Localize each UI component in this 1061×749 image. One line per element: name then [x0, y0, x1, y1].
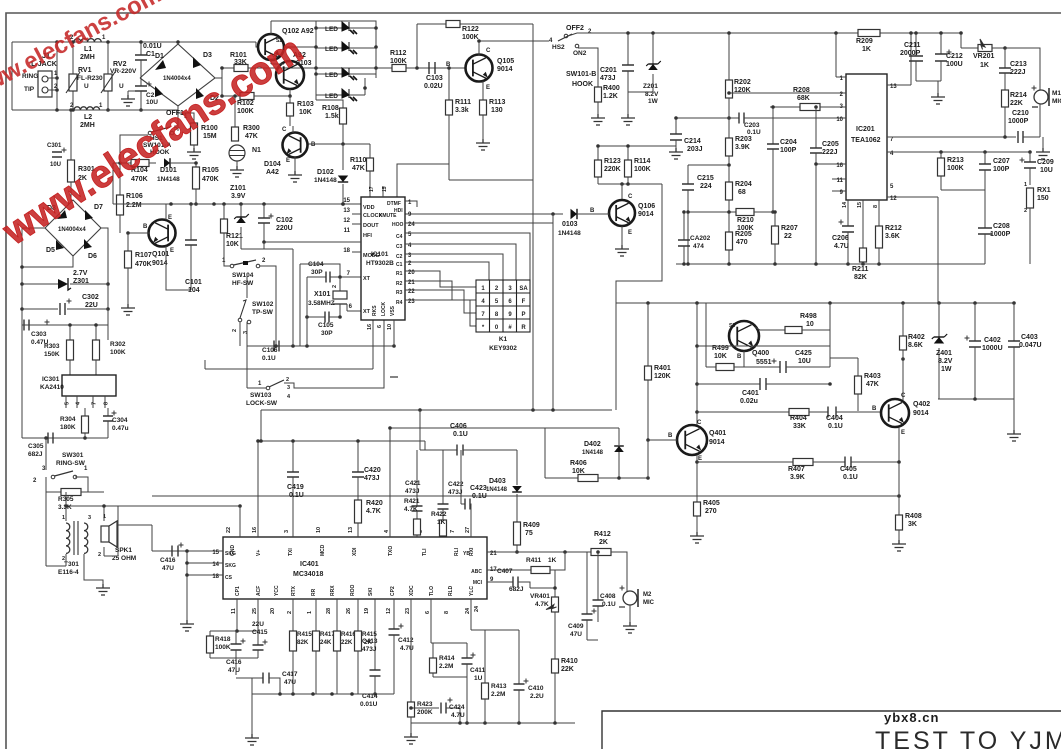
svg-text:2: 2 — [332, 285, 338, 288]
svg-text:C402: C402 — [984, 337, 1001, 344]
svg-text:TIP: TIP — [24, 86, 35, 93]
wire rail y204 — [113, 203, 361, 205]
svg-text:3.9K: 3.9K — [790, 474, 805, 481]
wire R123/R114 tops — [598, 145, 676, 147]
wire bottom rail y110 — [12, 109, 178, 111]
capacitor C305 682J — [48, 433, 53, 444]
svg-text:22: 22 — [784, 233, 792, 240]
diode D8 — [57, 210, 67, 219]
resistor R404 33K — [697, 411, 789, 413]
svg-text:474: 474 — [693, 243, 704, 250]
svg-text:R123: R123 — [604, 158, 621, 165]
svg-text:B: B — [311, 142, 316, 148]
svg-text:470: 470 — [736, 239, 748, 246]
svg-text:10: 10 — [387, 324, 393, 330]
ground under N1 — [236, 161, 238, 166]
svg-text:RLI: RLI — [454, 547, 460, 556]
wire long y496 — [152, 495, 899, 497]
svg-text:C: C — [282, 127, 287, 133]
resistor R305 3.3K — [46, 491, 61, 493]
resistor R499 10K — [705, 303, 707, 367]
svg-text:LED: LED — [325, 72, 338, 79]
capacitor C201 473J — [627, 33, 629, 65]
svg-text:11: 11 — [344, 228, 351, 234]
wire row y144 Q104 base — [308, 143, 370, 145]
svg-text:1N4004x4: 1N4004x4 — [58, 227, 86, 233]
wire vertical x293 — [292, 249, 294, 346]
svg-text:MODE: MODE — [363, 253, 380, 259]
resistor R301 2K — [70, 110, 72, 160]
resistor R108 1.5k — [340, 108, 347, 124]
wire HS1 to R104 row — [120, 135, 148, 163]
svg-text:C422: C422 — [448, 481, 464, 488]
svg-text:R414: R414 — [439, 655, 455, 662]
svg-text:R212: R212 — [885, 225, 902, 232]
svg-text:1.5k: 1.5k — [325, 113, 339, 120]
svg-text:R208: R208 — [793, 87, 810, 94]
svg-text:R107: R107 — [135, 252, 152, 259]
svg-text:ABC: ABC — [471, 569, 482, 575]
svg-text:1: 1 — [307, 611, 313, 614]
ground under R100 — [193, 145, 195, 148]
svg-text:C201: C201 — [600, 67, 617, 74]
wire main row y68 — [222, 67, 466, 69]
wire pin1 to rail — [835, 33, 837, 77]
wire Q401 base — [648, 439, 677, 441]
svg-text:0.01U: 0.01U — [360, 701, 378, 708]
wire Q402 emitter — [898, 427, 900, 496]
capacitor C410 2.2U — [518, 630, 520, 684]
svg-text:47U: 47U — [284, 679, 296, 686]
svg-text:30P: 30P — [321, 330, 333, 337]
svg-text:4.7K: 4.7K — [535, 601, 549, 608]
svg-text:Z101: Z101 — [230, 185, 246, 192]
wire pin10 stub — [393, 320, 395, 346]
wire bridge2 right — [101, 228, 108, 325]
wire SW102 to y369 — [239, 322, 241, 346]
diode D3 — [193, 57, 201, 68]
wire top rail y42 — [12, 41, 256, 43]
svg-text:R122: R122 — [462, 26, 479, 33]
svg-text:104: 104 — [188, 287, 200, 294]
svg-text:RV1: RV1 — [78, 67, 92, 74]
svg-text:3: 3 — [284, 530, 290, 533]
svg-text:CP2: CP2 — [390, 586, 396, 596]
wire pin11 stub — [832, 178, 846, 180]
svg-text:X101: X101 — [314, 291, 330, 298]
svg-text:C415: C415 — [252, 629, 268, 636]
capacitor C424 4.7U — [411, 707, 439, 709]
wire jog to rail y303 — [616, 184, 662, 410]
resistor R421 4.7K — [414, 519, 421, 535]
resistor R111 3.3k — [448, 68, 450, 100]
svg-text:473J: 473J — [362, 646, 377, 653]
capacitor C415 22U — [257, 599, 259, 645]
svg-text:30P: 30P — [311, 269, 323, 276]
svg-text:C403: C403 — [1021, 334, 1038, 341]
wire vertical x307 — [306, 277, 308, 346]
svg-text:TEA1062: TEA1062 — [851, 137, 881, 144]
svg-text:C205: C205 — [822, 141, 839, 148]
wire ring row y438 — [22, 437, 108, 439]
svg-text:R105: R105 — [202, 167, 219, 174]
svg-text:682J: 682J — [509, 586, 524, 593]
resistor R414 2.2M — [432, 643, 434, 658]
svg-text:Z201: Z201 — [643, 83, 658, 90]
svg-text:RX1: RX1 — [1037, 187, 1051, 194]
svg-text:SKG: SKG — [225, 551, 236, 557]
svg-text:2000P: 2000P — [900, 50, 921, 57]
svg-text:0.1U: 0.1U — [602, 601, 616, 608]
svg-text:10U: 10U — [146, 99, 158, 106]
capacitor C209 10U — [1029, 152, 1031, 162]
svg-text:C414: C414 — [362, 693, 378, 700]
wire C102 col down — [263, 242, 265, 249]
wire pin12 column down to y399 — [887, 196, 938, 198]
svg-text:0.01U: 0.01U — [143, 43, 162, 50]
zener Z201 8.2V 1W — [652, 33, 654, 64]
wire pin16 V+ up to bus — [257, 441, 259, 537]
svg-text:7: 7 — [450, 530, 456, 533]
wire crystal to XT pin — [347, 310, 361, 312]
resistor R411 1K — [487, 569, 531, 571]
svg-text:2MH: 2MH — [80, 54, 95, 61]
wire R bottoms to Q106 — [598, 183, 662, 185]
svg-text:HOO: HOO — [392, 222, 404, 228]
keypad column wires — [405, 233, 530, 280]
wire Q106 emitter — [621, 226, 623, 245]
svg-text:0.1U: 0.1U — [262, 355, 276, 362]
svg-text:100P: 100P — [780, 147, 797, 154]
resistor R498 10 — [755, 327, 785, 330]
svg-text:C405: C405 — [840, 466, 857, 473]
svg-text:682J: 682J — [28, 451, 43, 458]
wire pin24 HOO to x553 — [405, 222, 553, 224]
wire bus y450 with C406 — [424, 441, 426, 450]
svg-text:Q401: Q401 — [709, 430, 726, 437]
ground under C214 — [669, 148, 683, 159]
svg-text:R412: R412 — [594, 531, 611, 538]
svg-text:200K: 200K — [417, 709, 433, 716]
svg-text:C302: C302 — [82, 294, 99, 301]
svg-text:VR-220V: VR-220V — [110, 68, 137, 75]
svg-text:1N4004x4: 1N4004x4 — [163, 76, 191, 82]
svg-text:1K: 1K — [437, 519, 446, 526]
svg-text:TXO: TXO — [388, 546, 394, 556]
svg-text:C210: C210 — [1012, 110, 1029, 117]
capacitor C404 0.1U — [828, 407, 836, 418]
svg-text:15: 15 — [857, 202, 863, 208]
capacitor C104 30P — [307, 276, 326, 278]
svg-text:SW104: SW104 — [232, 272, 254, 279]
svg-text:Q106: Q106 — [638, 203, 655, 210]
capacitor C106 0.1U — [274, 341, 279, 352]
ground left of IC401 — [180, 620, 194, 631]
svg-text:HFI: HFI — [363, 233, 372, 239]
wire Q101 base — [128, 232, 149, 234]
transistor Q102 A92 — [258, 34, 284, 60]
svg-text:R405: R405 — [703, 500, 720, 507]
svg-text:5551: 5551 — [756, 359, 772, 366]
resistor R100 15M — [178, 113, 194, 123]
svg-text:68: 68 — [738, 189, 746, 196]
wire D402 branch — [545, 428, 619, 478]
resistor R212 3.6K — [878, 200, 880, 226]
resistor R403 47K — [830, 357, 858, 359]
capacitor C405 0.1U — [845, 457, 851, 468]
svg-text:10U: 10U — [798, 358, 811, 365]
svg-text:SA: SA — [519, 286, 528, 292]
svg-text:1U: 1U — [474, 675, 483, 682]
wire x420 from y410 — [419, 410, 421, 450]
svg-text:13: 13 — [348, 527, 354, 533]
capacitor C425 10U — [772, 359, 777, 364]
svg-text:68K: 68K — [797, 95, 810, 102]
ground under M2 — [623, 622, 637, 633]
resistor R302 100K — [95, 325, 97, 340]
svg-text:1: 1 — [1024, 182, 1027, 188]
svg-text:OFF2: OFF2 — [566, 25, 584, 32]
svg-text:C404: C404 — [826, 415, 843, 422]
svg-text:C101: C101 — [185, 279, 202, 286]
ground under C201 — [621, 114, 635, 125]
svg-text:R302: R302 — [110, 341, 126, 348]
svg-text:B: B — [872, 406, 877, 412]
wire pin11 HFI row y242 — [264, 241, 361, 243]
svg-text:0.1U: 0.1U — [453, 431, 468, 438]
svg-text:ACF: ACF — [256, 586, 262, 596]
svg-text:U: U — [84, 83, 89, 90]
svg-text:4.7K: 4.7K — [404, 506, 418, 513]
capacitor C105 30P — [307, 316, 325, 318]
svg-text:R421: R421 — [404, 498, 420, 505]
svg-text:R413: R413 — [491, 683, 507, 690]
svg-text:R110: R110 — [350, 157, 366, 164]
svg-text:MCI: MCI — [473, 580, 483, 586]
wire pin2 row — [729, 92, 846, 94]
svg-text:222J: 222J — [1010, 69, 1026, 76]
svg-text:HS2: HS2 — [552, 44, 565, 51]
resistor R415 82K — [292, 599, 294, 631]
svg-text:LED: LED — [325, 93, 338, 100]
resistor R213 100K — [940, 152, 942, 158]
capacitor C416b 47U — [235, 631, 237, 644]
svg-text:C411: C411 — [470, 667, 486, 674]
ground under R408 — [892, 540, 906, 551]
svg-text:C407: C407 — [497, 568, 513, 575]
svg-text:R408: R408 — [905, 513, 922, 520]
resistor R407 3.9K — [793, 459, 813, 466]
svg-text:2: 2 — [232, 329, 238, 332]
svg-text:R1: R1 — [396, 271, 403, 277]
wire bridge2 left loop — [22, 228, 45, 325]
svg-text:LOCK-SW: LOCK-SW — [246, 400, 278, 407]
svg-text:R113: R113 — [489, 99, 505, 106]
svg-text:SKI: SKI — [368, 587, 374, 596]
svg-text:E: E — [901, 430, 905, 436]
transistor Q104 D104 A42 — [283, 133, 308, 158]
svg-text:3.9V: 3.9V — [231, 193, 246, 200]
svg-text:Q402: Q402 — [913, 401, 930, 408]
svg-text:47U: 47U — [228, 667, 240, 674]
svg-text:F: F — [522, 299, 526, 305]
wire OFF2 rail y33 — [568, 33, 577, 36]
svg-text:D6: D6 — [88, 253, 97, 260]
svg-text:2: 2 — [287, 611, 293, 614]
capacitor C215 224 — [687, 165, 689, 184]
svg-text:25: 25 — [252, 608, 258, 614]
svg-text:22K: 22K — [1010, 100, 1023, 107]
svg-text:22K: 22K — [341, 639, 353, 646]
transistor Q101 9014 — [149, 220, 176, 247]
svg-text:8.6K: 8.6K — [908, 342, 923, 349]
svg-text:1K: 1K — [862, 46, 871, 53]
svg-text:9014: 9014 — [497, 66, 513, 73]
svg-text:C105: C105 — [318, 322, 334, 329]
capacitor C102 220U — [263, 204, 265, 218]
wire pin14 pin18 stubs — [187, 562, 223, 564]
ground under C211/C212 — [916, 80, 941, 82]
capacitor C422 473J — [442, 450, 444, 504]
svg-text:24K: 24K — [320, 639, 332, 646]
svg-text:L2: L2 — [84, 114, 92, 121]
svg-text:C417: C417 — [282, 671, 298, 678]
wire bottom bus y694 — [252, 693, 394, 695]
capacitor C208 1000P — [984, 190, 986, 228]
capacitor C413 473J — [374, 599, 376, 670]
svg-text:E: E — [170, 248, 174, 254]
resistor R123 220K — [597, 146, 599, 160]
svg-text:22U: 22U — [85, 302, 98, 309]
svg-text:D102: D102 — [317, 169, 334, 176]
svg-text:M2: M2 — [643, 592, 652, 598]
svg-text:6: 6 — [377, 325, 383, 328]
zener Z301 2.7V — [22, 283, 58, 285]
switch SW103 LOCK-SW — [247, 387, 266, 389]
svg-text:B: B — [668, 433, 673, 439]
neon lamp N1 — [229, 145, 245, 161]
ground under T301 — [84, 556, 103, 584]
wire Q101 collector — [165, 204, 167, 220]
wire pin21 RXI row — [487, 551, 591, 553]
varistor RV2 VR-220V — [107, 42, 109, 74]
wire Q402 collector — [902, 359, 904, 400]
svg-text:R213: R213 — [947, 157, 964, 164]
svg-text:R202: R202 — [734, 79, 751, 86]
wire Z101 row y249 — [241, 248, 293, 250]
wire R213/C207 bottoms — [941, 189, 985, 191]
svg-text:1W: 1W — [648, 98, 659, 105]
svg-text:IC401: IC401 — [300, 561, 319, 568]
resistor R416 22K — [336, 599, 338, 631]
switch SW104 HF-SW — [224, 263, 230, 266]
svg-text:16: 16 — [252, 527, 258, 533]
LED row 2 — [316, 47, 376, 49]
svg-text:Q101: Q101 — [152, 251, 169, 258]
svg-text:RTX: RTX — [291, 585, 297, 596]
svg-text:4.7U: 4.7U — [834, 243, 849, 250]
svg-text:470K: 470K — [202, 176, 219, 183]
svg-text:1.2K: 1.2K — [603, 93, 618, 100]
svg-text:8: 8 — [873, 205, 879, 208]
svg-text:R498: R498 — [800, 313, 817, 320]
svg-text:6: 6 — [425, 611, 431, 614]
resistor R104 470K — [113, 162, 131, 164]
transistor Q106 9014 — [621, 184, 623, 201]
wire jack to vertical — [48, 77, 57, 79]
svg-text:C209: C209 — [1037, 159, 1054, 166]
svg-text:R211: R211 — [852, 266, 868, 273]
svg-text:RLD: RLD — [448, 585, 454, 596]
svg-text:C: C — [486, 48, 491, 54]
capacitor C409 47U — [586, 552, 588, 614]
wire pin4 TXO up to D402 row — [389, 428, 391, 537]
resistor R102 100K — [222, 95, 240, 97]
resistor R415b 2K — [357, 599, 359, 631]
title block frame — [602, 711, 1061, 749]
wire vertical x529 — [532, 180, 534, 410]
svg-text:47K: 47K — [866, 381, 879, 388]
svg-text:KA2410: KA2410 — [40, 384, 64, 391]
resistor R208 68K — [770, 106, 800, 108]
svg-text:C204: C204 — [780, 139, 797, 146]
diode D403 1N4148 — [516, 450, 518, 485]
svg-text:10K: 10K — [226, 241, 239, 248]
svg-text:E: E — [628, 230, 632, 236]
svg-text:R106: R106 — [126, 193, 143, 200]
svg-text:24: 24 — [465, 607, 471, 614]
svg-text:R407: R407 — [788, 466, 805, 473]
svg-text:1N4148: 1N4148 — [486, 487, 508, 493]
svg-text:23: 23 — [405, 608, 411, 614]
svg-text:0.02U: 0.02U — [424, 83, 443, 90]
diode bridge D1-D4 1N4004x4 — [140, 44, 215, 106]
wire bottom bus y723 — [411, 722, 575, 724]
svg-text:10U: 10U — [50, 162, 61, 168]
wire long y410 — [261, 409, 612, 411]
svg-text:Z401: Z401 — [936, 350, 952, 357]
svg-text:D402: D402 — [584, 441, 601, 448]
svg-text:XT: XT — [363, 276, 371, 282]
svg-text:YB: YB — [463, 551, 470, 557]
potentiometer VR401 4.7K — [554, 570, 556, 597]
svg-text:22K: 22K — [561, 666, 574, 673]
svg-text:C106: C106 — [262, 347, 278, 354]
resistor R106 2.2M — [119, 163, 121, 195]
svg-text:R114: R114 — [634, 158, 650, 165]
svg-text:D403: D403 — [489, 478, 506, 485]
svg-text:E: E — [286, 158, 290, 164]
svg-text:C207: C207 — [993, 158, 1010, 165]
svg-text:4.7K: 4.7K — [366, 508, 381, 515]
svg-text:VSS: VSS — [390, 305, 396, 316]
microphone M2 MIC — [626, 591, 628, 592]
capacitor C1 0.01U — [140, 42, 142, 55]
wire pin22 to speaker row — [239, 506, 241, 537]
diode D4 — [155, 86, 163, 97]
svg-text:C301: C301 — [47, 143, 62, 149]
svg-text:VDD: VDD — [363, 205, 375, 211]
wire top bus y441 — [258, 440, 425, 442]
svg-text:10: 10 — [806, 321, 814, 328]
svg-text:C214: C214 — [684, 138, 701, 145]
ground under R423 — [410, 723, 412, 733]
svg-text:LOCK: LOCK — [381, 301, 387, 316]
svg-text:2.7V: 2.7V — [73, 270, 88, 277]
IC101 top pin stubs — [382, 186, 384, 197]
resistor R400 1.2K — [595, 87, 602, 102]
svg-text:28: 28 — [326, 608, 332, 614]
